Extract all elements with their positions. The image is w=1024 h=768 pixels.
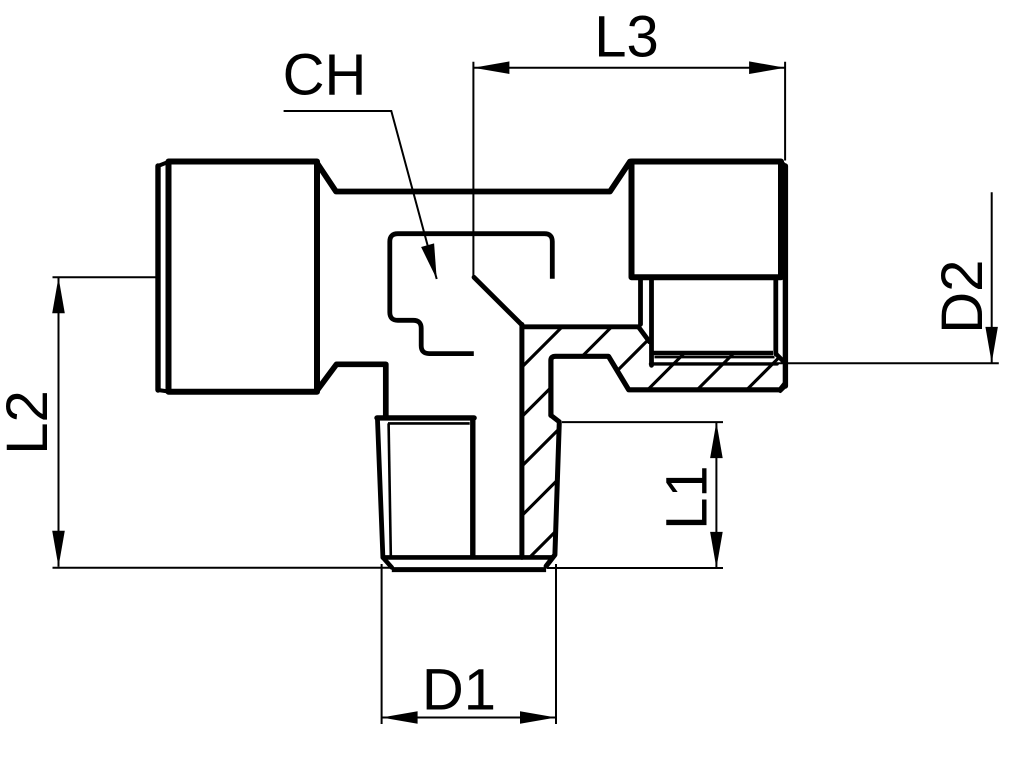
male stub left tip chamfer [383, 558, 392, 568]
svg-text:D2: D2 [930, 260, 995, 334]
left nut chamfer edge line [158, 162, 169, 392]
section hatching [339, 300, 886, 701]
female port mouth chamfer [776, 354, 785, 363]
female thread end vertical [649, 277, 654, 365]
CH leader arrowhead [421, 243, 437, 279]
dimension D2 [778, 192, 999, 363]
left nut body [169, 162, 318, 392]
dimension D1 [382, 564, 556, 724]
dimension L1 [547, 422, 723, 568]
horizontal bore line [523, 324, 639, 329]
female port end face vertical [773, 277, 778, 354]
thread relief line [651, 362, 778, 365]
drill cone transition [639, 327, 650, 342]
right nut outer edge line [780, 162, 785, 391]
svg-text:L2: L2 [0, 390, 60, 455]
stub right hatched wall boundary [546, 415, 559, 566]
female thread root line [655, 356, 775, 359]
neck bottom shoulder to branch [317, 364, 386, 416]
svg-text:L1: L1 [655, 465, 720, 530]
male thread root top line [388, 422, 470, 425]
dimension L3 [473, 62, 785, 278]
body lower-right outline [551, 356, 786, 415]
hex silhouette inner contour [390, 234, 553, 354]
svg-text:D1: D1 [422, 657, 496, 722]
male thread root left taper [389, 423, 391, 555]
male stub right edge [470, 418, 475, 556]
male stub left crest taper [378, 420, 383, 558]
right nut body [632, 162, 782, 278]
male stub crest top edge [377, 415, 474, 420]
female port bore step vertical [638, 277, 643, 324]
neck top shoulder and line [317, 162, 630, 192]
svg-text:L3: L3 [594, 5, 659, 70]
center wall vertical [519, 325, 524, 558]
svg-text:CH: CH [283, 42, 367, 107]
dimension L2 [53, 277, 393, 568]
male stub tip face line [392, 567, 546, 572]
section chamfer at bore junction [474, 277, 522, 325]
female thread crest line [652, 351, 774, 356]
male stub chamfer start line [384, 555, 554, 560]
